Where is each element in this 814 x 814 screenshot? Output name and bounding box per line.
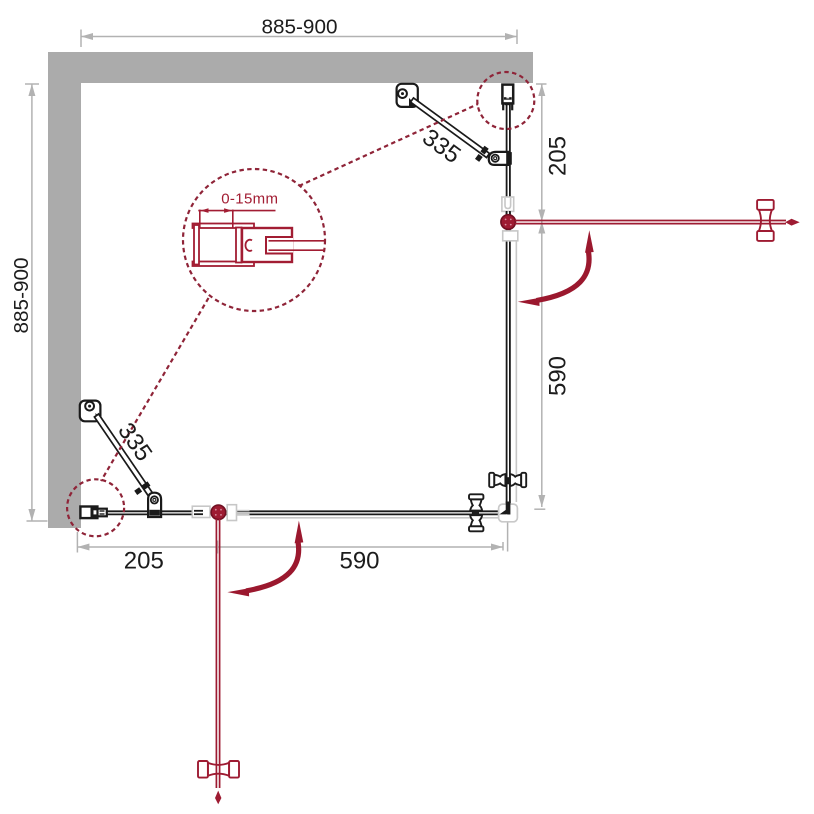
svg-text:885-900: 885-900 [10, 258, 33, 334]
svg-text:590: 590 [544, 356, 571, 396]
svg-text:205: 205 [544, 136, 571, 176]
svg-text:590: 590 [339, 548, 379, 575]
svg-text:205: 205 [124, 548, 164, 575]
svg-text:885-900: 885-900 [262, 16, 338, 39]
svg-text:0-15mm: 0-15mm [221, 191, 278, 208]
